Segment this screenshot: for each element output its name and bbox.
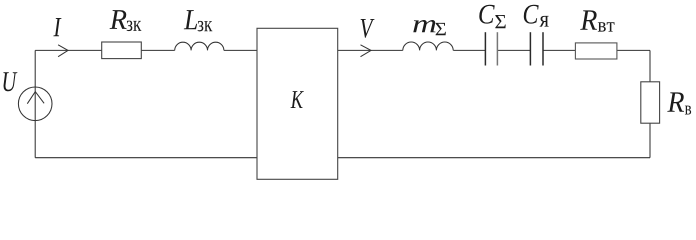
arrow V [361,45,372,57]
label K [291,91,304,108]
wire R_vt to right corner [617,49,650,51]
label m_sigma [413,20,445,35]
resistor R_zk [102,42,142,59]
label U [3,72,17,91]
resistor R_v [641,82,660,123]
current arrow I [58,45,68,57]
label C_ya [524,5,549,27]
label L_zk [184,10,213,31]
label R_v [667,92,691,114]
wire L_zk to K box [224,49,257,51]
inductor L_zk [175,42,224,50]
label R_vt [580,10,614,31]
wire left vertical [34,50,36,157]
label I [53,18,61,36]
wire m coil to C_sigma [453,49,485,51]
resistor R_vt [575,43,617,59]
wire R_zk to L_zk [141,49,174,51]
label R_zk [110,10,142,31]
capacitor C_sigma [485,32,497,65]
wire C_ya to R_vt [543,49,575,51]
label C_sigma [479,5,505,28]
wire right vertical [649,50,651,157]
wire top: source to R_zk [35,49,102,51]
source U [18,87,52,121]
capacitor C_ya [530,32,543,65]
inductor m_sigma [403,42,453,50]
wire K box to m coil [338,49,403,51]
wire C_sigma to C_ya [497,49,530,51]
label V [361,19,375,38]
wire bottom [35,157,650,159]
four-terminal network K box [257,28,338,179]
